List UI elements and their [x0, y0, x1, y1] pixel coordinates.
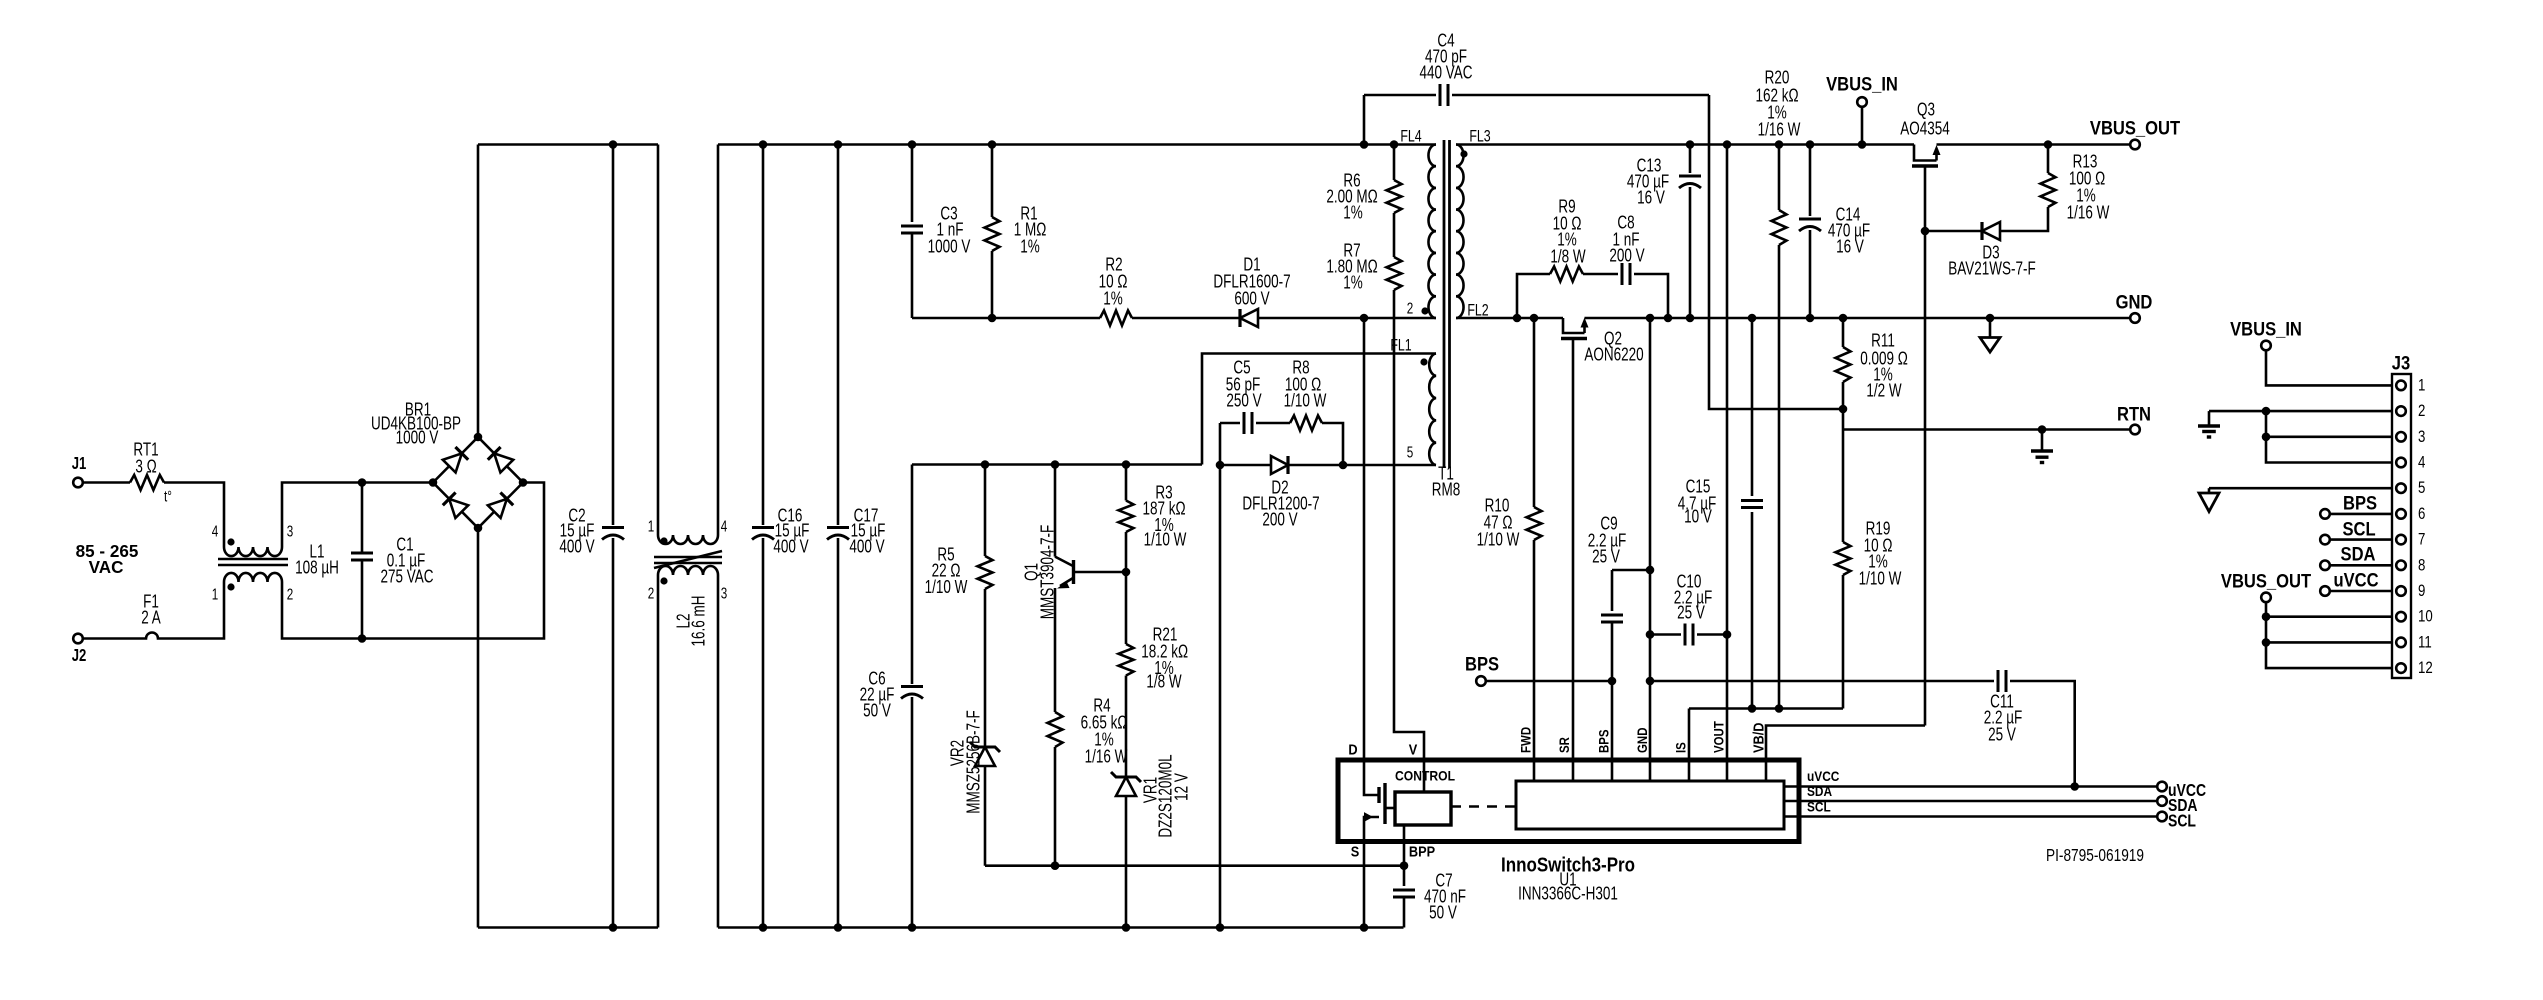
wire C11 right: [2010, 681, 2075, 787]
wire R10 to FWD pin: [1533, 540, 1536, 781]
junction BPS pin node: [1608, 677, 1617, 686]
svg-text:1/10 W: 1/10 W: [1859, 569, 1902, 590]
zener VR2: [970, 742, 1000, 766]
label CONTROL: [1395, 768, 1455, 784]
wire to pin11: [2266, 641, 2392, 644]
wire D3 to Q3 gate: [1925, 230, 1982, 233]
wire U1 S pin: [1363, 842, 1366, 928]
svg-text:FL4: FL4: [1400, 128, 1421, 146]
wire to pin10: [2266, 615, 2392, 618]
svg-text:10: 10: [2418, 607, 2433, 626]
wire rail segment B: [718, 143, 1436, 146]
svg-text:25 V: 25 V: [1592, 547, 1620, 568]
capacitor C11: [1998, 670, 2006, 692]
capacitor C3: [901, 145, 923, 319]
phase dot L2 pin2: [660, 577, 667, 584]
junction GND rail x1810: [1806, 314, 1815, 323]
svg-text:1/2 W: 1/2 W: [1866, 381, 1902, 402]
svg-text:uVCC: uVCC: [2333, 569, 2378, 591]
svg-text:9: 9: [2418, 582, 2425, 601]
junction C4 return R11: [1839, 405, 1848, 414]
pin label IS: [1673, 742, 1688, 753]
resistor R9: [1550, 267, 1583, 282]
wire BPS trace: [1486, 680, 1612, 683]
terminal BPS: [1476, 676, 1486, 686]
svg-text:400 V: 400 V: [773, 537, 808, 558]
junction C15 IS: [1748, 704, 1757, 713]
svg-text:600 V: 600 V: [1234, 289, 1269, 310]
label FL4: [1400, 128, 1421, 146]
pin label S: [1351, 842, 1360, 859]
junction GND rail x1534: [1530, 314, 1539, 323]
svg-text:25 V: 25 V: [1988, 725, 2016, 746]
wire GND rail: [1456, 317, 2130, 320]
label F1 2A: [141, 592, 161, 629]
svg-text:1: 1: [2418, 376, 2425, 395]
svg-text:SDA: SDA: [2341, 543, 2376, 565]
inductor L1 core: [218, 559, 288, 565]
svg-text:12: 12: [2418, 659, 2433, 678]
connector J3 pin 2 circle: [2396, 406, 2406, 416]
inductor L1 top winding: [224, 547, 282, 556]
svg-text:SCL: SCL: [2168, 812, 2196, 831]
wire VR2 to BPP line: [984, 766, 987, 866]
label C7 values: [1424, 871, 1466, 924]
label GND: [2116, 291, 2153, 313]
resistor R19: [1836, 430, 1851, 576]
svg-text:BPS: BPS: [2343, 492, 2377, 514]
svg-text:200 V: 200 V: [1609, 246, 1644, 267]
pin label FWD: [1518, 727, 1533, 753]
svg-text:1/10 W: 1/10 W: [925, 577, 968, 598]
terminal SCL J3: [2320, 535, 2330, 545]
pin number 9: [2418, 582, 2425, 601]
terminal BPS J3: [2320, 509, 2330, 519]
IC U1 dashed link: [1451, 805, 1516, 808]
junction D2 line bottom rail: [1216, 923, 1225, 932]
junction C13 rail: [1686, 140, 1695, 149]
pin number 11: [2418, 633, 2432, 652]
wire SDA trace: [1784, 800, 2157, 803]
pin number 7: [2418, 530, 2425, 549]
label SCL small: [1807, 798, 1831, 814]
wire VBUS_IN to pin1: [2266, 350, 2392, 385]
fuse F1: [141, 633, 163, 639]
label PI number: [2046, 846, 2144, 865]
junction BR1 top: [474, 433, 483, 442]
svg-text:VBUS_OUT: VBUS_OUT: [2090, 117, 2180, 139]
svg-text:RTN: RTN: [2117, 403, 2151, 425]
label VBUS_OUT J3: [2221, 570, 2311, 592]
junction C3 top: [908, 140, 917, 149]
label BR1: [371, 400, 461, 449]
wire R11 to RTN: [1842, 382, 1845, 430]
junction GND rail x1752: [1748, 314, 1757, 323]
ground earth J3: [2198, 411, 2220, 437]
svg-text:J2: J2: [72, 646, 87, 665]
svg-text:12 V: 12 V: [1172, 773, 1193, 801]
resistor R10: [1527, 318, 1542, 540]
wire R19 to IS: [1842, 575, 1845, 709]
svg-text:1%: 1%: [1020, 237, 1040, 258]
capacitor C13: [1679, 145, 1701, 319]
svg-text:INN3366C-H301: INN3366C-H301: [1518, 884, 1618, 905]
svg-text:16.6 mH: 16.6 mH: [689, 595, 710, 646]
junction RTN gnd: [2038, 425, 2047, 434]
phase dot FL3: [1460, 150, 1467, 157]
wire D2 line: [1219, 423, 1222, 928]
phase dot L2 pin1: [660, 537, 667, 544]
label SCL J3: [2342, 518, 2375, 540]
wire IS pin line: [1688, 709, 1691, 782]
resistor R13: [2041, 145, 2056, 208]
terminal SDA: [2157, 796, 2167, 806]
label FL2: [1467, 302, 1488, 320]
svg-text:1000 V: 1000 V: [928, 237, 971, 258]
label RTN: [2117, 403, 2151, 425]
svg-text:200 V: 200 V: [1262, 510, 1297, 531]
svg-text:Q3: Q3: [1917, 100, 1935, 121]
wire snubber left: [1517, 274, 1550, 318]
connector J3 pin 4 circle: [2396, 458, 2406, 468]
wire R9 to C8: [1583, 273, 1618, 276]
label t-deg: [164, 487, 172, 505]
svg-text:VAC: VAC: [89, 557, 124, 578]
resistor R8: [1290, 416, 1322, 431]
label R2 values: [1099, 255, 1128, 310]
svg-text:2: 2: [287, 585, 294, 603]
svg-text:t°: t°: [164, 487, 172, 505]
wire FL4 top corner: [1435, 143, 1438, 146]
capacitor C16: [752, 145, 774, 928]
svg-text:2: 2: [2418, 402, 2425, 421]
pin number 3: [2418, 427, 2425, 446]
wire VOUT pin line: [1726, 145, 1729, 782]
svg-text:1: 1: [648, 517, 655, 535]
label BPS net: [1465, 653, 1499, 675]
wire BR1 top to rail: [477, 145, 480, 438]
svg-text:5: 5: [1407, 443, 1414, 461]
junction BPP pin: [1400, 861, 1409, 870]
svg-text:1%: 1%: [1103, 289, 1123, 310]
svg-text:J1: J1: [72, 454, 87, 473]
pin labels L1: [212, 522, 294, 603]
wire C9 link: [1612, 569, 1650, 572]
capacitor C9: [1601, 570, 1623, 681]
svg-text:6: 6: [2418, 504, 2425, 523]
svg-text:440 VAC: 440 VAC: [1419, 63, 1472, 84]
phase dot L1 pin4: [227, 538, 234, 545]
label R1 values: [1014, 204, 1047, 258]
junction GND rail x1668: [1664, 314, 1673, 323]
junction R5 top: [981, 460, 990, 469]
label C5 values: [1226, 358, 1262, 412]
label L2 16.6mH: [674, 595, 710, 646]
wire R4 to BPP line: [1054, 747, 1057, 866]
transformer T1 FL4 winding: [1428, 145, 1436, 319]
svg-text:SCL: SCL: [1807, 798, 1831, 814]
zener VR1: [1111, 772, 1141, 796]
connector J3 pin 8 circle: [2396, 561, 2406, 571]
label Q1: [1022, 525, 1059, 620]
junction GND rail x1843: [1839, 314, 1848, 323]
wire VBUS_IN stub: [1861, 107, 1864, 145]
IC U1 control box: [1395, 792, 1451, 825]
phase dot L1 pin1: [227, 583, 234, 590]
wire VR1 to neg rail: [1125, 796, 1128, 928]
wire Q3 gate: [1924, 166, 1927, 726]
wire BPP net: [985, 864, 1404, 867]
svg-text:50 V: 50 V: [863, 701, 891, 722]
wire snubber right: [1634, 274, 1668, 318]
label BPS J3: [2343, 492, 2377, 514]
wire C11 left: [1650, 680, 1994, 683]
wire R13 to D3: [2000, 207, 2048, 231]
label C1 values: [380, 535, 433, 588]
resistor R2: [1100, 311, 1132, 326]
label J2: [72, 646, 87, 665]
svg-text:108 µH: 108 µH: [295, 558, 339, 579]
wire neg rail segment A: [478, 926, 658, 929]
junction C1 top: [358, 478, 367, 487]
label VBUS_OUT net: [2090, 117, 2180, 139]
capacitor C5: [1220, 412, 1290, 434]
transformer T1 core: [1444, 140, 1450, 468]
junction GND symbol: [1986, 314, 1995, 323]
svg-text:3: 3: [287, 522, 294, 540]
wire SDA to pin8: [2330, 564, 2392, 567]
junction Q1 collector: [1051, 460, 1060, 469]
svg-text:VBUS_IN: VBUS_IN: [2230, 318, 2302, 340]
junction R4 BPP: [1051, 861, 1060, 870]
pin labels L2: [648, 517, 728, 602]
wire uVCC trace: [1784, 785, 2157, 788]
junction pin2 stub: [2262, 407, 2271, 416]
transistor Q1: [1055, 465, 1074, 713]
capacitor C4: [1364, 84, 1709, 145]
pin number 1: [2418, 376, 2425, 395]
label R6 values: [1326, 171, 1377, 224]
capacitor C8: [1622, 263, 1630, 285]
terminal RTN: [2130, 425, 2140, 435]
wire rail segment A: [478, 143, 658, 146]
svg-text:CONTROL: CONTROL: [1395, 768, 1455, 784]
label R20 values: [1755, 68, 1801, 141]
wire to pin3: [2266, 435, 2392, 438]
label C4 values: [1419, 31, 1472, 84]
wire IS net: [1689, 707, 1843, 710]
svg-text:BPP: BPP: [1409, 842, 1435, 859]
junction Q3 gate D3: [1921, 227, 1930, 236]
wire C4 return: [1709, 95, 1843, 409]
label VR2: [948, 710, 985, 814]
svg-text:MMSZ5256B-7-F: MMSZ5256B-7-F: [964, 710, 985, 814]
label VR1: [1141, 754, 1193, 837]
pin label BPP: [1409, 842, 1435, 859]
IC U1 outer box: [1338, 760, 1799, 842]
label 85-265 VAC: [76, 541, 139, 578]
svg-text:2: 2: [1407, 299, 1414, 317]
wire J2 to F1: [83, 637, 141, 640]
label RT1 3 ohm: [133, 440, 158, 478]
junction VR1 bottom rail: [1122, 923, 1131, 932]
label VBUS_IN net: [1826, 73, 1898, 95]
junction C2 bottom: [609, 923, 618, 932]
label D2 values: [1242, 478, 1319, 531]
pin label 5: [1407, 443, 1414, 461]
label C14 values: [1828, 205, 1870, 258]
label R9 values: [1550, 197, 1586, 268]
wire neg rail segment B: [718, 926, 1404, 929]
svg-text:3 Ω: 3 Ω: [135, 457, 156, 478]
svg-text:1/8 W: 1/8 W: [1146, 671, 1182, 692]
pin label 2: [1407, 299, 1414, 317]
pin number 8: [2418, 556, 2425, 575]
svg-text:1: 1: [212, 585, 219, 603]
connector J3 pin 11 circle: [2396, 638, 2406, 648]
junction C16 top: [759, 140, 768, 149]
svg-text:4: 4: [2418, 453, 2426, 472]
capacitor C7: [1393, 866, 1415, 928]
wire R8 to corner: [1322, 423, 1343, 465]
junction R3 top: [1122, 460, 1131, 469]
junction GND rail x1650: [1646, 314, 1655, 323]
label C13 values: [1627, 156, 1669, 209]
ground earth RTN: [2031, 430, 2053, 463]
svg-text:3: 3: [2418, 427, 2425, 446]
connector J3 pin 3 circle: [2396, 432, 2406, 442]
svg-text:SDA: SDA: [1807, 783, 1833, 799]
svg-text:BPS: BPS: [1596, 729, 1611, 753]
resistor R4: [1048, 712, 1063, 747]
svg-text:1/10 W: 1/10 W: [1477, 530, 1520, 551]
pin label V: [1409, 740, 1418, 757]
wire VBUS rail: [1456, 143, 2130, 146]
svg-text:2 A: 2 A: [141, 608, 161, 629]
terminal VBUS_OUT: [2130, 140, 2140, 150]
terminal VBUS_OUT J3: [2261, 593, 2271, 603]
pin number 6: [2418, 504, 2425, 523]
ground triangle J3: [2199, 488, 2219, 511]
bridge BR1 diode bottom-left: [443, 493, 468, 519]
junction C9 gnd: [1646, 566, 1655, 575]
junction R6 top: [1390, 140, 1399, 149]
svg-text:400 V: 400 V: [559, 537, 594, 558]
junction R20 rail: [1775, 140, 1784, 149]
label C16 values: [773, 506, 809, 558]
svg-text:BPS: BPS: [1465, 653, 1499, 675]
svg-text:3: 3: [721, 584, 728, 602]
junction pin10 stub: [2262, 612, 2271, 621]
pin number 2: [2418, 402, 2425, 421]
label SDA J3: [2341, 543, 2376, 565]
capacitor C17: [827, 145, 849, 928]
label C2 values: [559, 506, 594, 558]
label Q3: [1900, 100, 1950, 140]
terminal VBUS_IN top: [1857, 97, 1867, 107]
label R21 values: [1141, 624, 1188, 692]
connector J3 box: [2392, 374, 2411, 678]
wire BPP pin stub: [1403, 825, 1406, 866]
svg-text:1/10 W: 1/10 W: [1144, 530, 1187, 551]
bridge BR1 diamond: [433, 437, 523, 528]
capacitor C6: [901, 465, 923, 928]
wire R6 to R7: [1393, 213, 1396, 257]
connector J3 pin 12 circle: [2396, 663, 2406, 673]
svg-text:SR: SR: [1557, 737, 1572, 753]
resistor RT1: [130, 475, 164, 490]
transistor Q3: [1912, 145, 1941, 167]
svg-text:1/8 W: 1/8 W: [1550, 247, 1586, 268]
transformer T1 FL3 winding: [1456, 145, 1464, 319]
label SCL right: [2168, 812, 2196, 831]
IC U1 internal mosfet: [1364, 760, 1395, 842]
wire R21 to VR1: [1125, 676, 1128, 778]
wire BPS to pin6: [2330, 513, 2392, 516]
label FL1: [1390, 337, 1411, 355]
wire R20 to IS: [1778, 245, 1781, 709]
resistor R6: [1387, 145, 1402, 214]
terminal SDA J3: [2320, 561, 2330, 571]
inductor L1 bottom winding: [224, 573, 282, 582]
junction BR1 left: [429, 478, 438, 487]
phase dot FL1: [1420, 358, 1427, 365]
junction VBUS_IN rail: [1858, 140, 1867, 149]
label VBUS_IN J3: [2230, 318, 2302, 340]
svg-text:1/16 W: 1/16 W: [1085, 747, 1128, 768]
svg-text:J3: J3: [2392, 352, 2410, 374]
wire RTN rail: [1843, 428, 2130, 431]
pin number 12: [2418, 659, 2433, 678]
label uVCC small: [1807, 768, 1840, 784]
capacitor C1: [351, 483, 373, 639]
label R19 values: [1859, 519, 1902, 590]
junction GND rail x1690: [1686, 314, 1695, 323]
svg-text:VBUS_OUT: VBUS_OUT: [2221, 570, 2311, 592]
wire J1 to RT1: [83, 481, 130, 484]
wire Q1 base: [1074, 571, 1127, 574]
connector J3 pin 5 circle: [2396, 483, 2406, 493]
pin label D: [1348, 740, 1357, 757]
wire VBD net: [1766, 726, 1925, 782]
svg-text:1%: 1%: [1343, 273, 1363, 294]
junction C16 bottom: [759, 923, 768, 932]
junction C14 rail: [1806, 140, 1815, 149]
terminal GND: [2130, 313, 2140, 323]
junction C17 top: [834, 140, 843, 149]
svg-text:7: 7: [2418, 530, 2425, 549]
label J3: [2392, 352, 2410, 374]
wire BR1 bottom to neg rail: [477, 528, 480, 928]
connector J3 pin 6 circle: [2396, 509, 2406, 519]
label L1 108uH: [295, 542, 339, 579]
svg-text:GND: GND: [1635, 728, 1650, 753]
junction pin3 stub: [2262, 433, 2271, 442]
svg-text:PI-8795-061919: PI-8795-061919: [2046, 846, 2144, 865]
label C8 values: [1609, 213, 1644, 267]
label R3 values: [1142, 483, 1187, 551]
connector J3 pin 1 circle: [2396, 381, 2406, 391]
label R11 values: [1860, 331, 1908, 402]
label U1 names: [1501, 853, 1635, 904]
junction R1 bottom: [988, 314, 997, 323]
wire R5 to VR2: [984, 589, 987, 747]
wire R3 to R21: [1125, 532, 1128, 644]
transistor Q2: [1561, 318, 1589, 339]
label T1 RM8: [1432, 464, 1461, 501]
svg-text:1%: 1%: [1343, 203, 1363, 224]
IC U1 inner box: [1516, 781, 1784, 829]
